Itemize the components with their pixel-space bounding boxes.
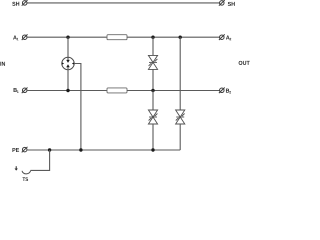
wire resistor R1 to A2: [127, 36, 220, 38]
label B2: [226, 89, 229, 93]
terminal B1: [22, 88, 28, 94]
node dot A TVS3: [179, 36, 182, 39]
node dot A TVS1: [151, 36, 154, 39]
wire TVS1 to B line: [152, 69, 154, 90]
node dot PE TVS2: [151, 148, 154, 151]
node dot B gas-tube: [66, 89, 69, 92]
wire B line to TVS2: [152, 91, 154, 111]
label B1: [14, 88, 17, 92]
wire A line to gas tube: [67, 37, 69, 60]
label OUT: [239, 61, 250, 65]
wire gas tube third electrode to PE: [74, 64, 81, 151]
node dot B TVS1: [151, 89, 154, 92]
wire resistor R2 to B2: [127, 90, 220, 92]
TVS suppressor diode V1: [148, 55, 157, 69]
label IN: [0, 62, 5, 66]
terminal A1: [22, 34, 28, 40]
wire gas tube to B line: [67, 67, 69, 91]
label SH right: [228, 2, 235, 6]
terminal SH right: [219, 0, 225, 6]
wire TVS2 to PE bus: [152, 124, 154, 150]
label PE: [12, 148, 19, 152]
wire SH bus: [27, 2, 220, 4]
node dot PE third-electrode: [79, 148, 82, 151]
TVS suppressor diode V2: [148, 110, 157, 124]
TVS suppressor diode V3: [176, 110, 185, 124]
wire TS branch: [31, 150, 50, 170]
wire TVS3 to PE bus end: [179, 124, 181, 150]
wire A1 to resistor R1: [27, 36, 107, 38]
terminal A2: [219, 34, 225, 40]
node dot PE TS-branch: [48, 148, 51, 151]
label A2: [226, 36, 230, 40]
resistor R1: [107, 35, 127, 40]
resistor R2: [107, 88, 127, 93]
wire A line to TVS3 crossing B: [179, 37, 181, 110]
wire B1 to resistor R2: [27, 90, 107, 92]
node dot A gas-tube: [66, 36, 69, 39]
wire PE bus: [27, 149, 180, 151]
terminal B2: [219, 88, 225, 94]
TS rail contact arc: [22, 171, 31, 174]
terminal PE: [22, 147, 28, 153]
label SH left: [12, 2, 19, 6]
wire A line to TVS1: [152, 37, 154, 55]
gas discharge tube F1: [62, 57, 74, 69]
TS arrow: [15, 166, 18, 170]
label TS: [23, 177, 29, 181]
terminal SH left: [22, 0, 28, 6]
label A1: [13, 36, 17, 40]
